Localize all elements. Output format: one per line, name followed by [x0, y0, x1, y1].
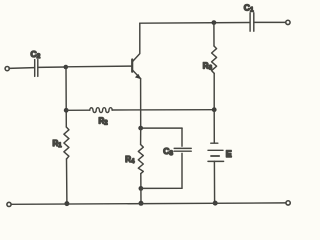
wire: emitter line node D to bottom rail: [140, 188, 142, 203]
wire: R1 to bottom rail: [66, 159, 68, 204]
transistor Q1 (base bar): [131, 60, 133, 72]
resistor R6: [212, 46, 217, 73]
wire: left vertical, node A down to R1: [65, 67, 67, 127]
wire: R6 to node E2: [213, 73, 215, 109]
node F (battery / bottom rail): [213, 201, 218, 206]
wire: C2 to base node: [38, 66, 66, 68]
wire: top rail collector to C1: [140, 22, 250, 25]
capacitor C2: [35, 60, 38, 77]
bottom-left terminal: [7, 202, 11, 206]
wire: C3 branch right vertical upper: [181, 128, 183, 146]
resistor R4: [138, 145, 143, 174]
wire: emitter vertical down: [140, 79, 142, 129]
wire: C3 branch bottom horizontal: [141, 187, 182, 189]
wire: bottom rail: [11, 203, 286, 204]
wire: node B to R2: [66, 109, 90, 111]
wire: R4 to node D: [140, 174, 142, 189]
bottom-right terminal: [286, 201, 290, 205]
svg-text:E: E: [226, 149, 232, 159]
wire: input terminal to C2 left plate: [9, 67, 34, 70]
node H (emitter line / bottom rail): [139, 201, 144, 206]
output terminal (top right): [286, 20, 290, 24]
wire: node E2 down to battery: [213, 110, 215, 143]
wire: C1 to output terminal: [254, 21, 286, 23]
node C (emitter / R4-C3 top junction): [138, 126, 143, 131]
wire: battery to bottom rail: [213, 161, 215, 203]
resistor R2: [90, 108, 112, 113]
node B (junction of R2 on left vertical): [64, 108, 69, 113]
node G (left vertical / bottom rail): [64, 201, 69, 206]
node top-right (collector rail / R6): [212, 20, 217, 25]
wire: node C to R4: [140, 128, 142, 144]
battery E: [208, 143, 224, 161]
capacitor C1: [250, 13, 254, 31]
resistor R1: [64, 127, 69, 159]
wire: R2 to right rail (crosses emitter line): [112, 109, 214, 111]
node A (base bias junction): [64, 65, 69, 70]
wire: C3 branch top horizontal: [141, 127, 182, 129]
wire: right rail top to R6: [213, 23, 215, 46]
transistor Q1 collector lead: [133, 23, 140, 61]
transistor Q1 emitter lead with arrow: [133, 70, 142, 79]
capacitor C3: [174, 148, 191, 151]
node D (R4-C3 bottom junction): [139, 186, 144, 191]
wire: C3 branch right vertical lower: [181, 153, 183, 188]
node E2 (R6 / R2 rail junction): [212, 107, 217, 112]
input terminal (left, signal in): [5, 67, 9, 71]
wire: node A to transistor base: [66, 65, 131, 68]
